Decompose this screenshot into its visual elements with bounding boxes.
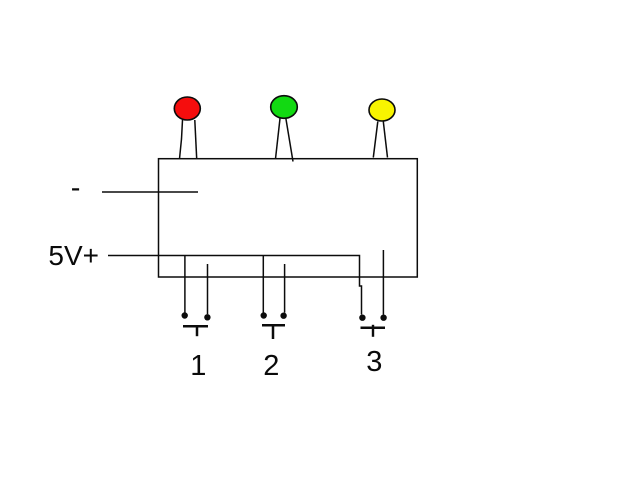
- node switch2 right contact: [280, 313, 286, 319]
- wire switch1 left drop: [184, 256, 186, 313]
- LED D3 yellow: left leg wire: [373, 122, 378, 158]
- switch S1 actuator bar: [183, 325, 208, 328]
- node switch1 right contact: [204, 314, 210, 320]
- switch S3 actuator bar: [361, 326, 386, 329]
- LED D1 red: right leg wire: [195, 120, 197, 159]
- wire switch2 right drop: [284, 264, 286, 313]
- LED D2 green: right leg wire: [286, 118, 293, 162]
- LED D2 green bulb: [271, 96, 298, 119]
- LED D2 green: left leg wire: [276, 119, 281, 159]
- label negative terminal "-": [71, 172, 81, 205]
- IC body / driver box U1: [159, 159, 418, 277]
- label 5V+: [48, 240, 99, 272]
- wire negative rail: [102, 191, 198, 193]
- LED D3 yellow bulb: [369, 99, 395, 121]
- label switch 3: [366, 346, 382, 379]
- switch S2 actuator stem: [272, 325, 275, 339]
- node switch3 right contact: [380, 315, 386, 321]
- node switch1 left contact: [182, 312, 188, 318]
- LED D1 red: left leg wire: [180, 120, 183, 159]
- label switch 1: [190, 350, 206, 383]
- node switch2 left contact: [261, 312, 267, 318]
- switch S3 actuator stem: [372, 325, 374, 337]
- wire 5V+ rail: [108, 256, 362, 315]
- wire switch3 right drop: [382, 250, 384, 315]
- switch S2 actuator bar: [262, 324, 285, 327]
- LED D3 yellow: right leg wire: [383, 122, 387, 158]
- LED D1 red bulb: [174, 97, 200, 120]
- switch S1 actuator stem: [196, 326, 199, 336]
- label switch 2: [263, 350, 279, 383]
- wire switch2 left drop: [262, 256, 264, 313]
- wire switch1 right drop: [207, 264, 209, 314]
- node switch3 left contact: [359, 315, 365, 321]
